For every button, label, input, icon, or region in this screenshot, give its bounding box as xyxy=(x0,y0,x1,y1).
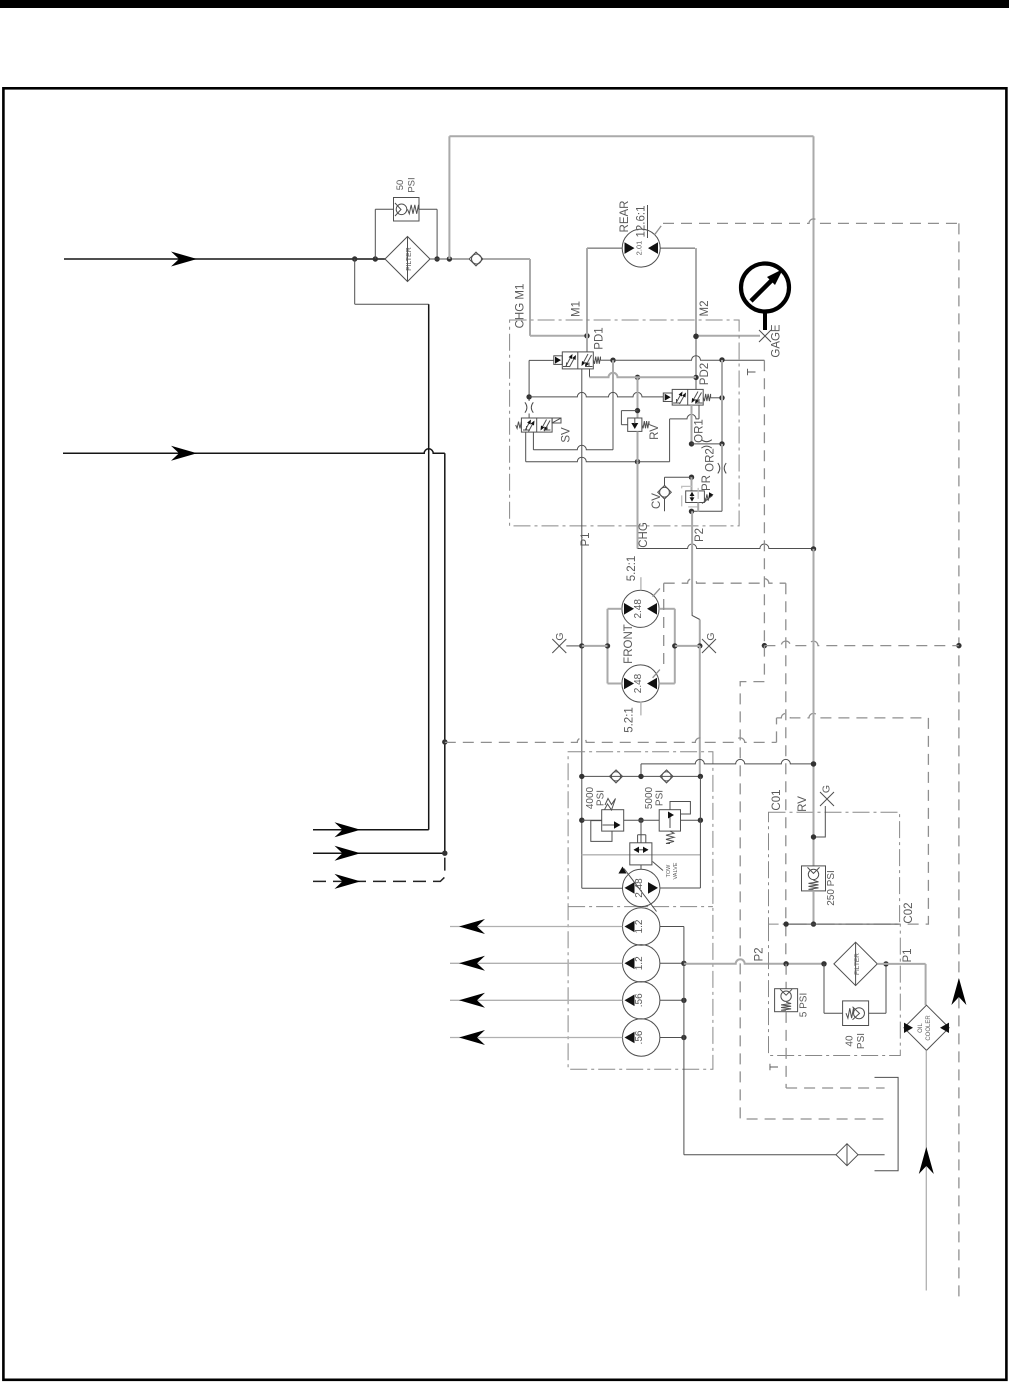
wire: PD2 tank port to drain bus xyxy=(638,405,700,462)
wire M2 xyxy=(693,248,711,389)
svg-text:PSI: PSI xyxy=(596,790,607,806)
relief valve RV 250 PSI xyxy=(797,549,837,927)
svg-text:SV: SV xyxy=(561,427,573,443)
svg-text:12.6:1: 12.6:1 xyxy=(636,206,648,238)
relief valve RV xyxy=(621,375,661,462)
wire: charge/case line across pump tops xyxy=(641,759,816,776)
svg-text:C02: C02 xyxy=(903,902,915,923)
tank (reservoir) xyxy=(875,1077,899,1170)
enclosure: transmission valve block (dash-dot) xyxy=(510,320,739,526)
filter FLTR xyxy=(385,237,430,282)
svg-text:T: T xyxy=(769,1063,781,1070)
orifice: SV pilot xyxy=(525,402,533,418)
wire: case drain trunk right (dashed) xyxy=(951,223,966,1302)
test point G (right of front motors) xyxy=(702,632,717,653)
oil cooler xyxy=(904,1005,949,1050)
pump .56 (lower) xyxy=(450,1019,687,1056)
svg-text:5.2:1: 5.2:1 xyxy=(624,707,636,733)
pump P (variable 2.48, transmission) xyxy=(582,867,660,912)
svg-text:1.2: 1.2 xyxy=(634,919,645,933)
check valve 40 PSI filter bypass xyxy=(824,961,889,1049)
wire: FRONT motor case drain (dashed) xyxy=(653,579,786,964)
valve SV (solenoid vent) xyxy=(516,418,573,443)
motor REAR 2.01 xyxy=(587,201,695,268)
wire: REAR motor case drain (dashed) xyxy=(655,219,959,235)
svg-text:COOLER: COOLER xyxy=(926,1015,932,1041)
svg-text:VALVE: VALVE xyxy=(673,862,679,879)
wire: inlet supply line to filter xyxy=(64,252,386,267)
wire: case drain inlet (dashed) xyxy=(313,853,445,889)
strainer (suction) xyxy=(836,1144,885,1166)
wire: FRONT motor right bus xyxy=(672,609,700,684)
wire P2 output to filter xyxy=(684,947,827,966)
motor FRONT lower 2.48 xyxy=(608,665,675,702)
wire P2 (charge to front motors) xyxy=(692,511,706,776)
label FRONT and ratios xyxy=(623,556,641,733)
pressure reducing valve PR xyxy=(682,475,714,514)
wire: SV port to PD1 node xyxy=(533,432,613,450)
svg-text:2.48: 2.48 xyxy=(633,673,644,693)
svg-text:CV: CV xyxy=(651,493,663,509)
svg-text:PR: PR xyxy=(701,475,713,491)
enclosure C01 (dash-dot) xyxy=(769,789,900,924)
wire: pump return bus to tank xyxy=(684,927,836,1155)
svg-text:.56: .56 xyxy=(634,993,645,1007)
check valve CV xyxy=(651,475,694,512)
svg-text:5.2:1: 5.2:1 xyxy=(626,556,638,582)
test point G (charge relief) xyxy=(811,785,834,840)
wire: case drain trunk to filter inlet xyxy=(355,259,429,830)
svg-text:2.01: 2.01 xyxy=(635,241,644,256)
svg-text:G: G xyxy=(705,632,717,640)
valve PD2 (solenoid directional) xyxy=(663,363,711,405)
check valve: pump outlet right xyxy=(660,770,673,783)
valve PD1 (solenoid directional) xyxy=(554,327,606,369)
orifice OR2 xyxy=(692,444,727,511)
wire M1 xyxy=(571,248,588,352)
svg-text:FRONT: FRONT xyxy=(623,624,635,664)
svg-text:CHG M1: CHG M1 xyxy=(515,284,527,329)
relief valve 4000 PSI xyxy=(579,786,624,841)
svg-text:PSI: PSI xyxy=(655,790,666,806)
svg-text:P2: P2 xyxy=(694,528,706,542)
wire: C01/C02 boundary junction xyxy=(783,921,899,926)
svg-text:OIL: OIL xyxy=(918,1023,924,1033)
check valve 5 PSI xyxy=(775,964,885,1088)
svg-text:G: G xyxy=(554,632,566,640)
wire P1 (return to tank via cooler) xyxy=(877,948,925,1005)
svg-text:4000: 4000 xyxy=(585,786,596,809)
svg-text:REAR: REAR xyxy=(619,201,631,233)
filter (return line) xyxy=(834,942,877,985)
svg-text:PD2: PD2 xyxy=(699,363,711,385)
pump 1.2 (lower) xyxy=(450,945,687,982)
wire: case drain inlet (solid, lower) xyxy=(313,846,447,861)
svg-text:P2: P2 xyxy=(754,947,766,961)
wire: filter bypass loop xyxy=(375,209,440,261)
check valve 50 PSI filter bypass xyxy=(394,177,420,221)
check valve: pump outlet left xyxy=(610,770,623,783)
svg-text:250 PSI: 250 PSI xyxy=(826,870,837,906)
wire CHG M1 xyxy=(483,259,590,338)
svg-text:OR2: OR2 xyxy=(705,448,717,472)
wire P1 (to front axle motors / pump suction) xyxy=(579,369,592,889)
svg-text:G: G xyxy=(821,785,833,793)
enclosure: tandem pump assembly (dash-dot) xyxy=(568,752,713,1069)
valve TOW VALVE (manual bypass) xyxy=(582,820,701,879)
wire: gauge line to right trunk (dashed) xyxy=(764,641,959,646)
wire: PD1 work port to M2 junction xyxy=(590,369,697,378)
gauge GAGE xyxy=(693,264,789,358)
motor FRONT upper 2.48 xyxy=(608,590,675,627)
test point G (left of front motors) xyxy=(552,632,582,653)
svg-text:2.48: 2.48 xyxy=(633,599,644,619)
svg-text:M2: M2 xyxy=(699,301,711,317)
wire: pilot supply to PD1/PD2 solenoids xyxy=(526,360,663,401)
svg-text:CHG: CHG xyxy=(638,522,650,548)
svg-text:T: T xyxy=(747,368,759,375)
wire: dashed return to C02 enclosure xyxy=(445,713,929,924)
svg-text:1.2: 1.2 xyxy=(634,956,645,970)
svg-text:5 PSI: 5 PSI xyxy=(799,993,810,1017)
wire: charge supply loop (top) xyxy=(449,136,813,549)
svg-text:PSI: PSI xyxy=(856,1033,867,1049)
svg-text:PD1: PD1 xyxy=(594,327,606,349)
svg-text:FILTER: FILTER xyxy=(406,247,413,271)
svg-text:FILTER: FILTER xyxy=(854,953,861,975)
svg-text:TOW: TOW xyxy=(666,864,672,878)
svg-text:40: 40 xyxy=(845,1035,856,1047)
svg-text:50: 50 xyxy=(395,180,406,191)
svg-text:PSI: PSI xyxy=(407,177,418,192)
svg-text:RV: RV xyxy=(649,424,661,440)
pump .56 (upper) xyxy=(450,982,687,1019)
enclosure C02 (dash-dot) xyxy=(769,902,916,1070)
orifice OR1 xyxy=(689,405,725,448)
wire: pump outlet check line xyxy=(579,774,703,779)
wire: case drain inlet (solid, upper) xyxy=(313,822,429,837)
svg-text:RV: RV xyxy=(797,796,809,812)
relief valve 5000 PSI xyxy=(624,786,703,843)
wire: cooler outlet down xyxy=(919,1050,934,1290)
wire: pump1 outlet xyxy=(660,776,701,888)
svg-text:GAGE: GAGE xyxy=(771,324,783,358)
wire: inlet supply line 2 xyxy=(63,446,447,853)
svg-text:M1: M1 xyxy=(571,301,583,317)
pump 1.2 (upper) xyxy=(450,908,684,945)
svg-text:C01: C01 xyxy=(771,789,783,810)
svg-text:P1: P1 xyxy=(580,532,592,546)
svg-text:P1: P1 xyxy=(902,948,914,962)
wire: SV drain to charge relief bus xyxy=(526,432,641,464)
wire CHG (charge) junction line xyxy=(638,462,817,552)
wire: PD2 spring chamber to cooler relief trunk xyxy=(711,360,725,444)
svg-text:5000: 5000 xyxy=(644,786,655,809)
svg-text:OR1: OR1 xyxy=(694,419,706,443)
wire: FRONT motor left bus xyxy=(582,609,610,684)
wire T (tank return, dashed) xyxy=(740,360,883,1119)
check valve: charge line check at filter outlet xyxy=(430,252,483,266)
svg-text:.56: .56 xyxy=(634,1030,645,1044)
wire: PD1 spring chamber to node xyxy=(601,356,765,450)
